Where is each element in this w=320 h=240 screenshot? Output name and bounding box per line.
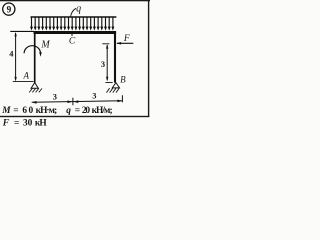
svg-text:F: F — [123, 34, 130, 44]
svg-text:M: M — [40, 39, 50, 50]
svg-text:F=30кН: F=30кН — [2, 119, 48, 129]
svg-text:C: C — [69, 37, 76, 47]
svg-text:q: q — [76, 4, 81, 15]
svg-text:B: B — [120, 74, 126, 84]
svg-text:M=60кН·м;q=20кН/м;: M=60кН·м;q=20кН/м; — [1, 106, 112, 116]
svg-text:9: 9 — [7, 4, 12, 14]
svg-text:A: A — [22, 71, 29, 81]
svg-text:3: 3 — [101, 60, 105, 69]
svg-text:3: 3 — [53, 92, 57, 101]
svg-text:3: 3 — [92, 92, 96, 101]
